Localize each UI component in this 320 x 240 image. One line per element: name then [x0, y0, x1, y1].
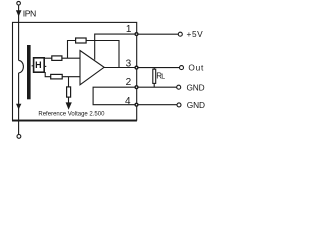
- svg-text:IPN: IPN: [23, 9, 36, 19]
- svg-text:L: L: [161, 74, 165, 81]
- svg-text:3: 3: [126, 58, 132, 69]
- svg-text:Out: Out: [188, 62, 204, 72]
- svg-text:Reference Voltage 2.500: Reference Voltage 2.500: [38, 111, 105, 117]
- svg-text:1: 1: [126, 24, 132, 35]
- svg-text:+5V: +5V: [187, 29, 204, 39]
- svg-text:GND: GND: [187, 82, 205, 92]
- svg-text:2: 2: [126, 77, 132, 88]
- svg-text:4: 4: [125, 96, 131, 107]
- svg-text:GND: GND: [187, 100, 205, 110]
- svg-text:H: H: [35, 60, 42, 70]
